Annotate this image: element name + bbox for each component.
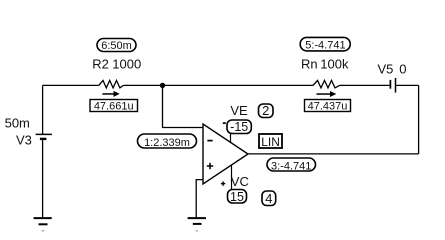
- svg-text:R2: R2: [92, 57, 109, 72]
- svg-text:VC: VC: [231, 174, 249, 189]
- svg-text:50m: 50m: [5, 116, 30, 131]
- svg-text:VE: VE: [230, 103, 248, 118]
- svg-text:3:-4.741: 3:-4.741: [271, 160, 311, 172]
- svg-text:0: 0: [399, 61, 406, 76]
- svg-text:4: 4: [265, 191, 272, 206]
- svg-text:15: 15: [230, 190, 244, 204]
- svg-text:47.661u: 47.661u: [94, 100, 134, 112]
- svg-text:Rn: Rn: [301, 57, 318, 72]
- svg-text:2: 2: [262, 103, 269, 118]
- svg-text:47.437u: 47.437u: [308, 100, 348, 112]
- svg-text:V5: V5: [378, 61, 394, 76]
- svg-text:1:2.339m: 1:2.339m: [144, 137, 190, 149]
- svg-text:6:50m: 6:50m: [101, 40, 132, 52]
- svg-text:1000: 1000: [112, 57, 141, 72]
- svg-text:-15: -15: [230, 120, 248, 134]
- svg-text:100k: 100k: [320, 57, 349, 72]
- svg-text:5:-4.741: 5:-4.741: [305, 40, 345, 52]
- svg-text:V3: V3: [16, 132, 32, 147]
- svg-text:LIN: LIN: [261, 135, 280, 149]
